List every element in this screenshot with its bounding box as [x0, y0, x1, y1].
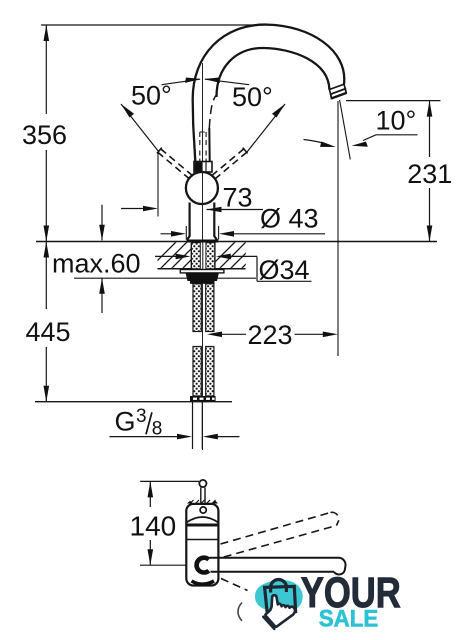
ball joint	[186, 172, 218, 204]
side top dim line	[140, 480, 199, 482]
aerator band	[329, 84, 346, 98]
max60 extension line	[74, 277, 256, 279]
dimension 223	[207, 332, 338, 338]
dimension 231 line	[427, 101, 433, 242]
side mid line	[186, 539, 218, 541]
collar above ball	[194, 162, 212, 173]
spout neck right edge	[208, 128, 211, 170]
counter hatching left	[148, 240, 211, 270]
dimension d43 extension lines	[186, 226, 218, 240]
dimension 73	[121, 206, 263, 213]
right 50 leader line with arrow	[247, 104, 285, 152]
logo bag	[265, 579, 296, 612]
top right reference line	[346, 100, 440, 102]
label G38	[115, 406, 163, 439]
top reference line	[41, 24, 263, 26]
side body bottom shading	[192, 581, 215, 584]
svg-text:10°: 10°	[376, 106, 417, 136]
counter hatching right	[207, 240, 270, 270]
left 50 leader line with arrow	[121, 104, 159, 152]
outlet tilted 10deg line	[340, 100, 351, 160]
side lever pin	[199, 480, 206, 503]
dimension d43 arrows	[161, 231, 326, 237]
extension line from left swivel end	[157, 153, 159, 217]
svg-text:G: G	[115, 407, 136, 437]
side body top corner shading	[187, 501, 193, 504]
side body top ticks	[190, 500, 216, 504]
outlet vertical reference line	[337, 101, 339, 356]
svg-text:50°: 50°	[131, 81, 172, 111]
svg-text:73: 73	[223, 183, 253, 213]
side screw	[200, 507, 206, 513]
side handle lowered dashed	[221, 579, 248, 591]
svg-text:356: 356	[22, 120, 67, 150]
svg-text:445: 445	[25, 317, 70, 347]
MAIN VIEW GROUP	[35, 25, 437, 450]
counter bottom line	[158, 268, 246, 270]
side handle tube	[210, 558, 346, 575]
side handle raised dashed	[221, 512, 339, 557]
spout inner curve	[217, 48, 330, 97]
base flange	[187, 240, 219, 243]
svg-text:max.60: max.60	[52, 249, 141, 279]
svg-text:231: 231	[407, 159, 452, 189]
spout outer curve	[193, 25, 345, 170]
dimension 445 line	[45, 242, 47, 310]
side body	[186, 504, 218, 586]
threaded shank in counter	[191, 243, 215, 270]
svg-text:Ø34: Ø34	[259, 255, 310, 285]
svg-text:50°: 50°	[232, 82, 273, 112]
spout internal cartridge dashes	[200, 132, 206, 161]
bottom reference line	[35, 401, 232, 403]
rod feet	[190, 396, 216, 402]
right swivel spout dashed	[212, 148, 248, 179]
mounting nut	[186, 273, 219, 281]
dimension 356 line	[45, 25, 47, 114]
logo blob	[255, 580, 303, 612]
centerline through ball	[202, 172, 204, 204]
body pipe below ball	[187, 203, 217, 241]
threaded rods lower	[193, 347, 214, 397]
centerline faucet axis	[202, 63, 204, 450]
svg-text:140: 140	[130, 511, 177, 542]
angle 50 top arrows	[162, 78, 250, 85]
threaded rods upper	[193, 284, 214, 332]
svg-text:8: 8	[152, 418, 163, 439]
side pivot ring	[197, 558, 209, 573]
mounting washer	[180, 270, 224, 273]
left swivel spout dashed	[157, 148, 193, 179]
dimension 140	[140, 481, 186, 565]
10deg dimension	[304, 135, 418, 147]
logo hand cuff	[263, 617, 274, 629]
stray watermark curve	[238, 603, 242, 621]
max60 dimension arrows	[99, 205, 105, 313]
svg-text:SALE: SALE	[319, 605, 379, 632]
svg-text:3: 3	[136, 406, 147, 427]
supply pipe below feet	[193, 402, 203, 450]
dimension G38	[110, 434, 240, 440]
svg-text:223: 223	[247, 320, 292, 350]
svg-text:Ø 43: Ø 43	[260, 204, 319, 234]
side dome	[187, 517, 219, 523]
arrowheads left dims	[44, 25, 50, 402]
counter top line	[36, 241, 437, 243]
dimension d34 arrows	[155, 254, 312, 282]
spout hidden edge dashed	[209, 95, 217, 129]
logo hand	[265, 595, 295, 627]
